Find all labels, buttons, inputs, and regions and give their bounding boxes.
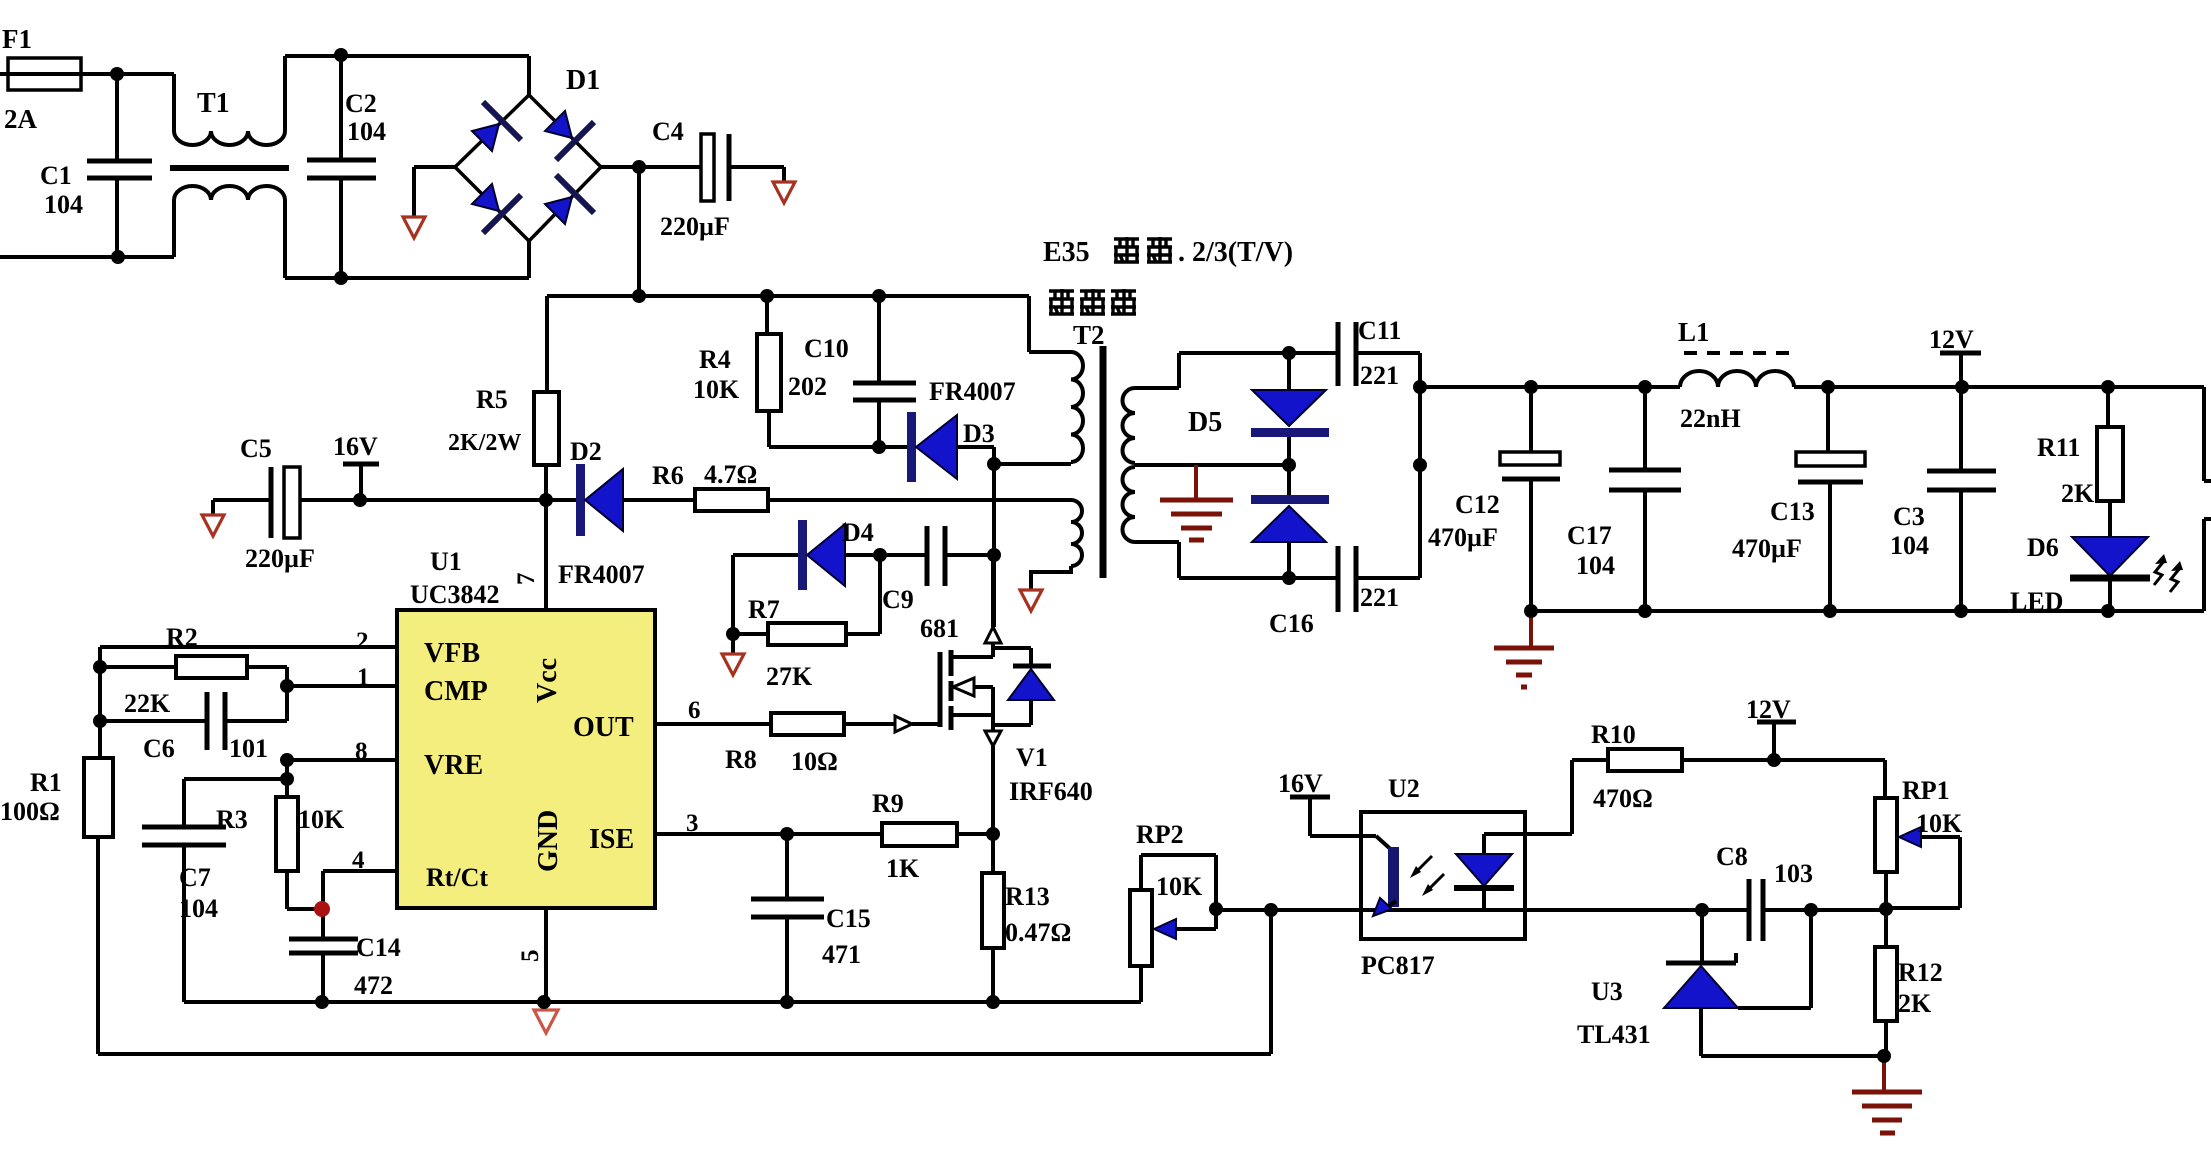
svg-text:3: 3	[686, 810, 699, 837]
svg-text:1: 1	[357, 664, 370, 691]
svg-text:C16: C16	[1269, 609, 1314, 638]
svg-text:CMP: CMP	[424, 676, 488, 707]
svg-text:FR4007: FR4007	[929, 377, 1016, 406]
svg-text:T1: T1	[197, 88, 230, 119]
svg-text:D3: D3	[963, 419, 995, 448]
svg-text:C9: C9	[882, 585, 914, 614]
svg-text:R4: R4	[699, 345, 731, 374]
svg-text:R13: R13	[1005, 882, 1050, 911]
svg-text:221: 221	[1360, 583, 1399, 612]
svg-text:12V: 12V	[1929, 325, 1974, 354]
svg-text:C17: C17	[1567, 521, 1612, 550]
svg-text:R12: R12	[1898, 958, 1943, 987]
svg-text:10K: 10K	[298, 805, 345, 834]
svg-text:104: 104	[44, 190, 83, 219]
svg-text:470Ω: 470Ω	[1593, 784, 1653, 813]
svg-text:471: 471	[822, 940, 861, 969]
svg-text:C1: C1	[40, 161, 72, 190]
svg-text:16V: 16V	[1278, 769, 1323, 798]
svg-text:22K: 22K	[124, 689, 171, 718]
svg-text:E35: E35	[1043, 237, 1090, 268]
svg-text:U3: U3	[1591, 977, 1623, 1006]
svg-text:100Ω: 100Ω	[0, 797, 60, 826]
svg-text:220µF: 220µF	[660, 212, 730, 241]
svg-text:10K: 10K	[1156, 872, 1203, 901]
svg-text:R8: R8	[725, 745, 757, 774]
svg-text:U2: U2	[1388, 774, 1420, 803]
svg-text:C12: C12	[1455, 490, 1500, 519]
svg-text:Vcc: Vcc	[532, 658, 563, 703]
svg-text:220µF: 220µF	[245, 544, 315, 573]
svg-text:R5: R5	[476, 385, 508, 414]
svg-text:D6: D6	[2027, 533, 2059, 562]
svg-text:C11: C11	[1358, 316, 1401, 345]
svg-text:R7: R7	[748, 595, 780, 624]
svg-text:472: 472	[354, 971, 393, 1000]
svg-text:2A: 2A	[4, 104, 38, 134]
svg-text:C13: C13	[1770, 497, 1815, 526]
svg-text:RP1: RP1	[1902, 776, 1950, 805]
svg-text:0.47Ω: 0.47Ω	[1005, 918, 1071, 947]
svg-text:12V: 12V	[1746, 695, 1791, 724]
svg-text:8: 8	[355, 738, 368, 765]
svg-text:C14: C14	[356, 933, 401, 962]
svg-text:R11: R11	[2037, 433, 2080, 462]
svg-text:104: 104	[347, 117, 386, 146]
svg-text:D2: D2	[570, 437, 602, 466]
svg-text:R9: R9	[872, 789, 904, 818]
svg-text:4.7Ω: 4.7Ω	[704, 460, 757, 489]
svg-text:C8: C8	[1716, 842, 1748, 871]
svg-text:C5: C5	[240, 434, 272, 463]
svg-text:V1: V1	[1016, 743, 1048, 772]
svg-text:4: 4	[352, 847, 365, 874]
svg-text:VRE: VRE	[424, 750, 483, 781]
svg-text:104: 104	[179, 894, 218, 923]
svg-text:104: 104	[1576, 551, 1615, 580]
svg-text:22nH: 22nH	[1680, 404, 1741, 433]
svg-text:F1: F1	[2, 24, 32, 54]
svg-text:C10: C10	[804, 334, 849, 363]
svg-text:R2: R2	[166, 623, 198, 652]
svg-text:R6: R6	[652, 461, 684, 490]
svg-text:. 2/3(T/V): . 2/3(T/V)	[1178, 237, 1293, 268]
svg-text:FR4007: FR4007	[558, 560, 645, 589]
svg-text:C15: C15	[826, 904, 871, 933]
svg-text:27K: 27K	[766, 662, 813, 691]
svg-text:7: 7	[513, 573, 540, 586]
svg-text:470µF: 470µF	[1732, 534, 1802, 563]
svg-text:ISE: ISE	[589, 824, 634, 855]
svg-text:221: 221	[1360, 361, 1399, 390]
svg-text:VFB: VFB	[424, 638, 480, 669]
svg-text:101: 101	[229, 734, 268, 763]
svg-text:TL431: TL431	[1577, 1020, 1651, 1049]
svg-text:104: 104	[1890, 531, 1929, 560]
svg-text:103: 103	[1774, 859, 1813, 888]
svg-text:16V: 16V	[333, 432, 378, 461]
svg-text:D5: D5	[1188, 407, 1222, 438]
svg-text:U1: U1	[430, 547, 462, 576]
svg-text:10Ω: 10Ω	[791, 747, 838, 776]
svg-text:LED: LED	[2010, 587, 2063, 616]
svg-text:R10: R10	[1591, 720, 1636, 749]
svg-text:D4: D4	[842, 518, 874, 547]
svg-text:C4: C4	[652, 117, 684, 146]
svg-text:2K: 2K	[2061, 479, 2095, 508]
svg-text:OUT: OUT	[573, 712, 634, 743]
svg-text:6: 6	[688, 697, 701, 724]
svg-text:IRF640: IRF640	[1009, 777, 1093, 806]
svg-text:470µF: 470µF	[1428, 523, 1498, 552]
svg-text:10K: 10K	[693, 375, 740, 404]
svg-text:T2: T2	[1073, 320, 1105, 350]
svg-text:GND: GND	[533, 810, 564, 872]
svg-text:UC3842: UC3842	[410, 580, 500, 609]
svg-text:C7: C7	[179, 863, 211, 892]
svg-text:PC817: PC817	[1361, 951, 1435, 980]
svg-text:C3: C3	[1893, 502, 1925, 531]
svg-text:C2: C2	[345, 89, 377, 118]
svg-text:2K: 2K	[1898, 989, 1932, 1018]
svg-text:Rt/Ct: Rt/Ct	[426, 863, 488, 892]
svg-text:R3: R3	[216, 805, 248, 834]
svg-text:RP2: RP2	[1136, 820, 1184, 849]
svg-text:10K: 10K	[1916, 809, 1963, 838]
svg-text:202: 202	[788, 372, 827, 401]
svg-text:2K/2W: 2K/2W	[448, 430, 521, 456]
svg-text:1K: 1K	[886, 854, 920, 883]
svg-text:C6: C6	[143, 734, 175, 763]
svg-text:R1: R1	[30, 768, 62, 797]
svg-text:681: 681	[920, 614, 959, 643]
svg-text:D1: D1	[566, 65, 600, 96]
svg-text:2: 2	[356, 628, 369, 655]
svg-text:L1: L1	[1678, 317, 1710, 347]
svg-text:5: 5	[517, 950, 544, 963]
